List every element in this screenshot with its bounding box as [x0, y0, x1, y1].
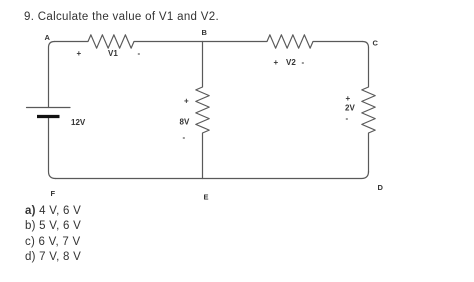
svg-text:-: - — [302, 58, 305, 67]
svg-text:12V: 12V — [71, 118, 86, 127]
svg-text:D: D — [378, 183, 384, 192]
svg-text:E: E — [204, 193, 209, 202]
svg-text:V2: V2 — [286, 58, 296, 67]
svg-text:+: + — [77, 49, 82, 58]
svg-text:-: - — [346, 114, 349, 123]
svg-text:-: - — [183, 133, 186, 142]
svg-text:2V: 2V — [345, 104, 355, 113]
svg-text:C: C — [373, 39, 379, 48]
svg-text:F: F — [51, 189, 56, 198]
svg-text:+: + — [346, 94, 351, 103]
svg-text:8V: 8V — [180, 118, 190, 127]
svg-text:+: + — [184, 97, 189, 106]
svg-text:A: A — [45, 33, 51, 42]
svg-text:-: - — [138, 49, 141, 58]
svg-text:V1: V1 — [108, 49, 118, 58]
svg-text:+: + — [274, 58, 279, 67]
svg-text:B: B — [202, 28, 208, 37]
